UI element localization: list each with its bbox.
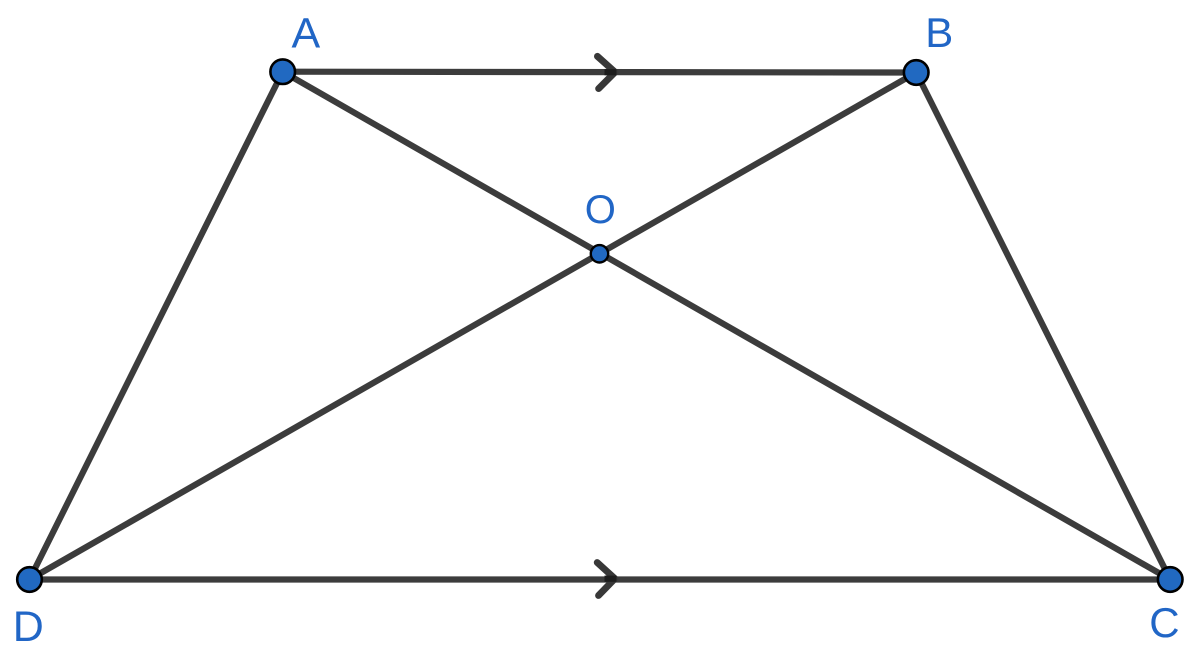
side BC	[916, 73, 1170, 580]
diagonal BD	[30, 73, 917, 580]
svg-text:D: D	[13, 603, 44, 651]
point D	[17, 567, 42, 592]
arrow-line overlap bottom	[605, 576, 617, 582]
diagonal AC	[283, 72, 1170, 580]
svg-text:B: B	[925, 9, 953, 56]
point O	[591, 245, 608, 262]
parallel arrow mark on DC	[597, 563, 615, 596]
point A	[270, 59, 295, 84]
point B	[904, 60, 929, 85]
arrow-line overlap top	[605, 69, 617, 75]
svg-text:C: C	[1149, 599, 1179, 646]
svg-text:A: A	[292, 10, 321, 58]
side AD	[30, 72, 283, 580]
side AB	[283, 69, 917, 76]
point C	[1158, 567, 1183, 592]
side DC	[30, 576, 1171, 582]
svg-text:O: O	[585, 188, 616, 232]
parallel arrow mark on AB	[597, 56, 615, 88]
